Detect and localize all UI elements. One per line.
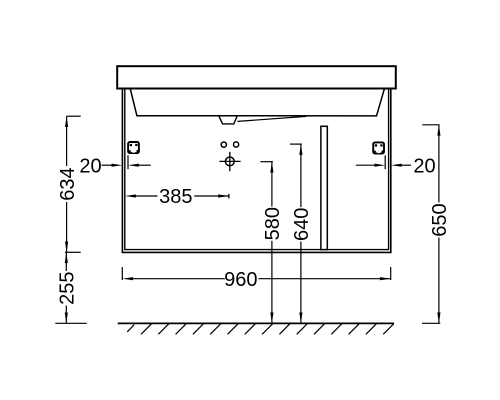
dimension 960 [122,267,390,291]
floor line [118,322,394,324]
svg-text:20: 20 [79,155,101,177]
floor hatching [127,324,394,335]
dimension 640 [290,144,313,323]
svg-text:255: 255 [57,272,79,305]
basin bowl front profile [130,89,384,116]
tap hole symbol [219,152,240,171]
dimension 385 [125,186,229,208]
bowl underside taper line [237,116,306,121]
svg-text:385: 385 [159,186,192,208]
dimension 20 right [356,155,436,177]
svg-text:960: 960 [224,269,257,291]
svg-text:580: 580 [262,207,284,240]
dimension 20 left [79,155,150,177]
svg-text:650: 650 [429,203,451,236]
dimension 580 [260,162,284,324]
cabinet outer box [122,89,390,253]
dimension 255 [55,252,87,323]
fixing holes [221,142,239,147]
washbasin top slab [117,66,396,88]
interior divider bar [321,126,327,249]
right hinge plate [373,142,384,153]
left hinge plate [128,142,139,153]
dimension 650 [422,125,451,323]
cabinet inner panel line [125,89,389,250]
dimension 634 [57,116,81,252]
drain boss under bowl [219,116,237,124]
svg-text:640: 640 [291,208,313,241]
svg-text:634: 634 [57,167,79,200]
svg-text:20: 20 [413,155,435,177]
